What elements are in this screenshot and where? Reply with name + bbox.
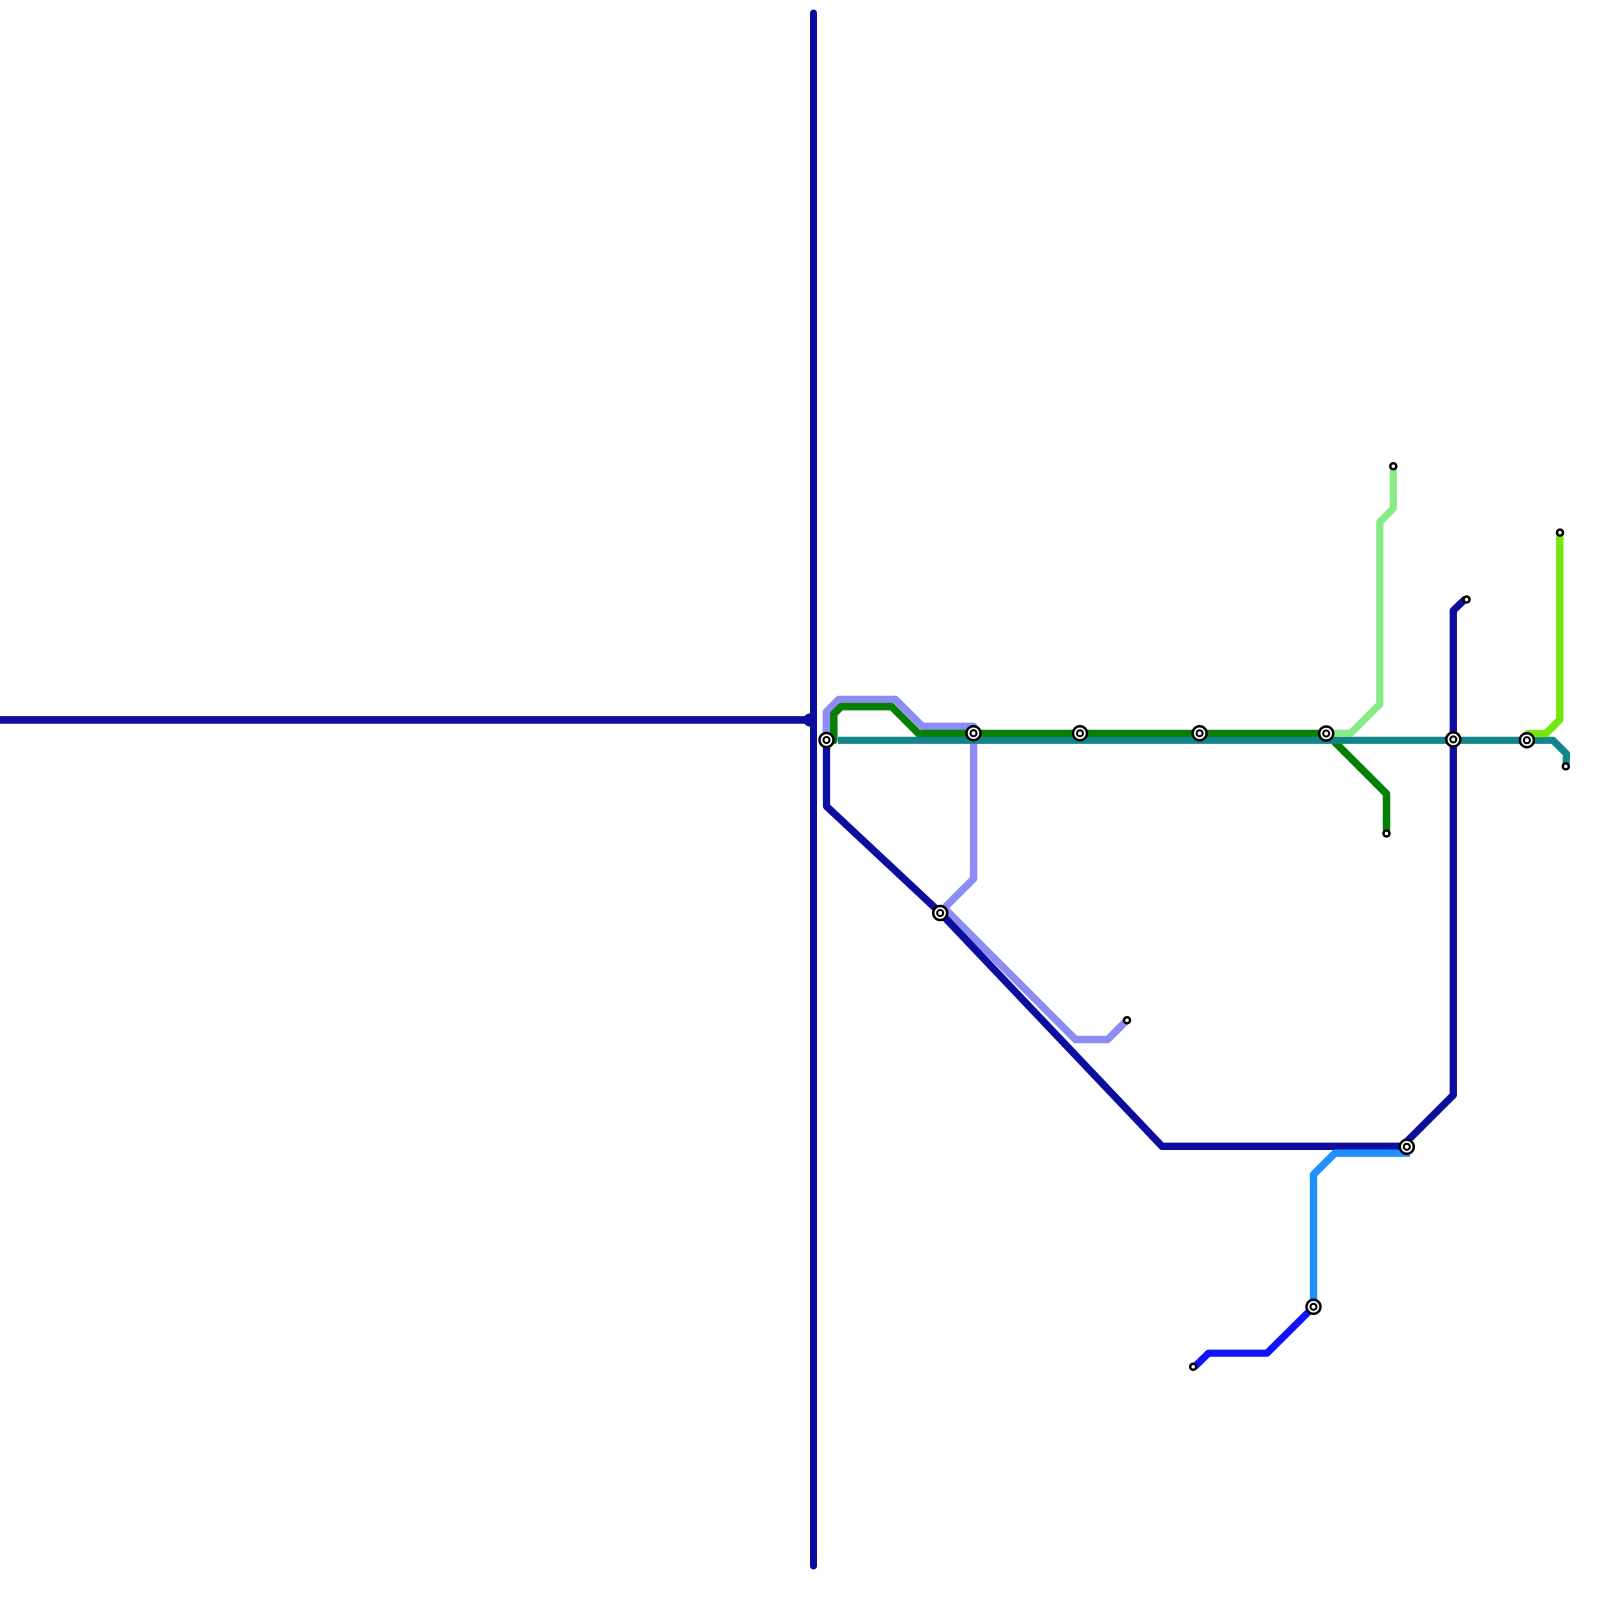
station S10 (1313.5,1306.8) — [1307, 1300, 1321, 1314]
station S5 (1326.2,733.5) — [1319, 727, 1333, 741]
station S3 (1080,733.3) — [1073, 726, 1087, 740]
endpoint dot teal east — [1563, 763, 1569, 769]
purple line (lavender route) — [826, 699, 1125, 1039]
navy vertical trunk — [810, 13, 817, 1566]
green line trunk and south-east branch — [834, 707, 1387, 830]
station S1 interchange (826,740) — [820, 733, 834, 747]
navy hook line (station loop: down, diagonal, east, up to north dot) — [827, 600, 1465, 1147]
endpoint dot purple east — [1124, 1017, 1130, 1023]
station S2 (973.5,733.2) — [967, 726, 981, 740]
endpoint dot chartreuse top — [1557, 530, 1563, 536]
blue line (bottom) — [1195, 1307, 1314, 1367]
teal line — [838, 740, 1567, 766]
navy horizontal trunk (west) — [0, 716, 810, 724]
station S9 (1406.4,1147.4) — [1400, 1140, 1414, 1154]
endpoint dot green branch south — [1384, 831, 1390, 837]
endpoint dot blue south-west — [1190, 1364, 1196, 1370]
endpoint dot navy hook top — [1464, 597, 1470, 603]
station S4 (1199.6,733.3) — [1193, 726, 1207, 740]
station S7 (1526.9,740.2) — [1520, 733, 1534, 747]
chartreuse line (bright green branch) — [1528, 537, 1560, 734]
light blue line (dodger blue) — [1314, 1153, 1411, 1307]
pale green line (lightgreen branch) — [1327, 468, 1394, 733]
station S6 (1453.3,739.4) — [1446, 732, 1460, 746]
endpoint dot pale green top — [1390, 463, 1396, 469]
navy junction node at end of west horizontal — [803, 713, 816, 726]
station S8 (940.2,913) — [933, 906, 947, 920]
